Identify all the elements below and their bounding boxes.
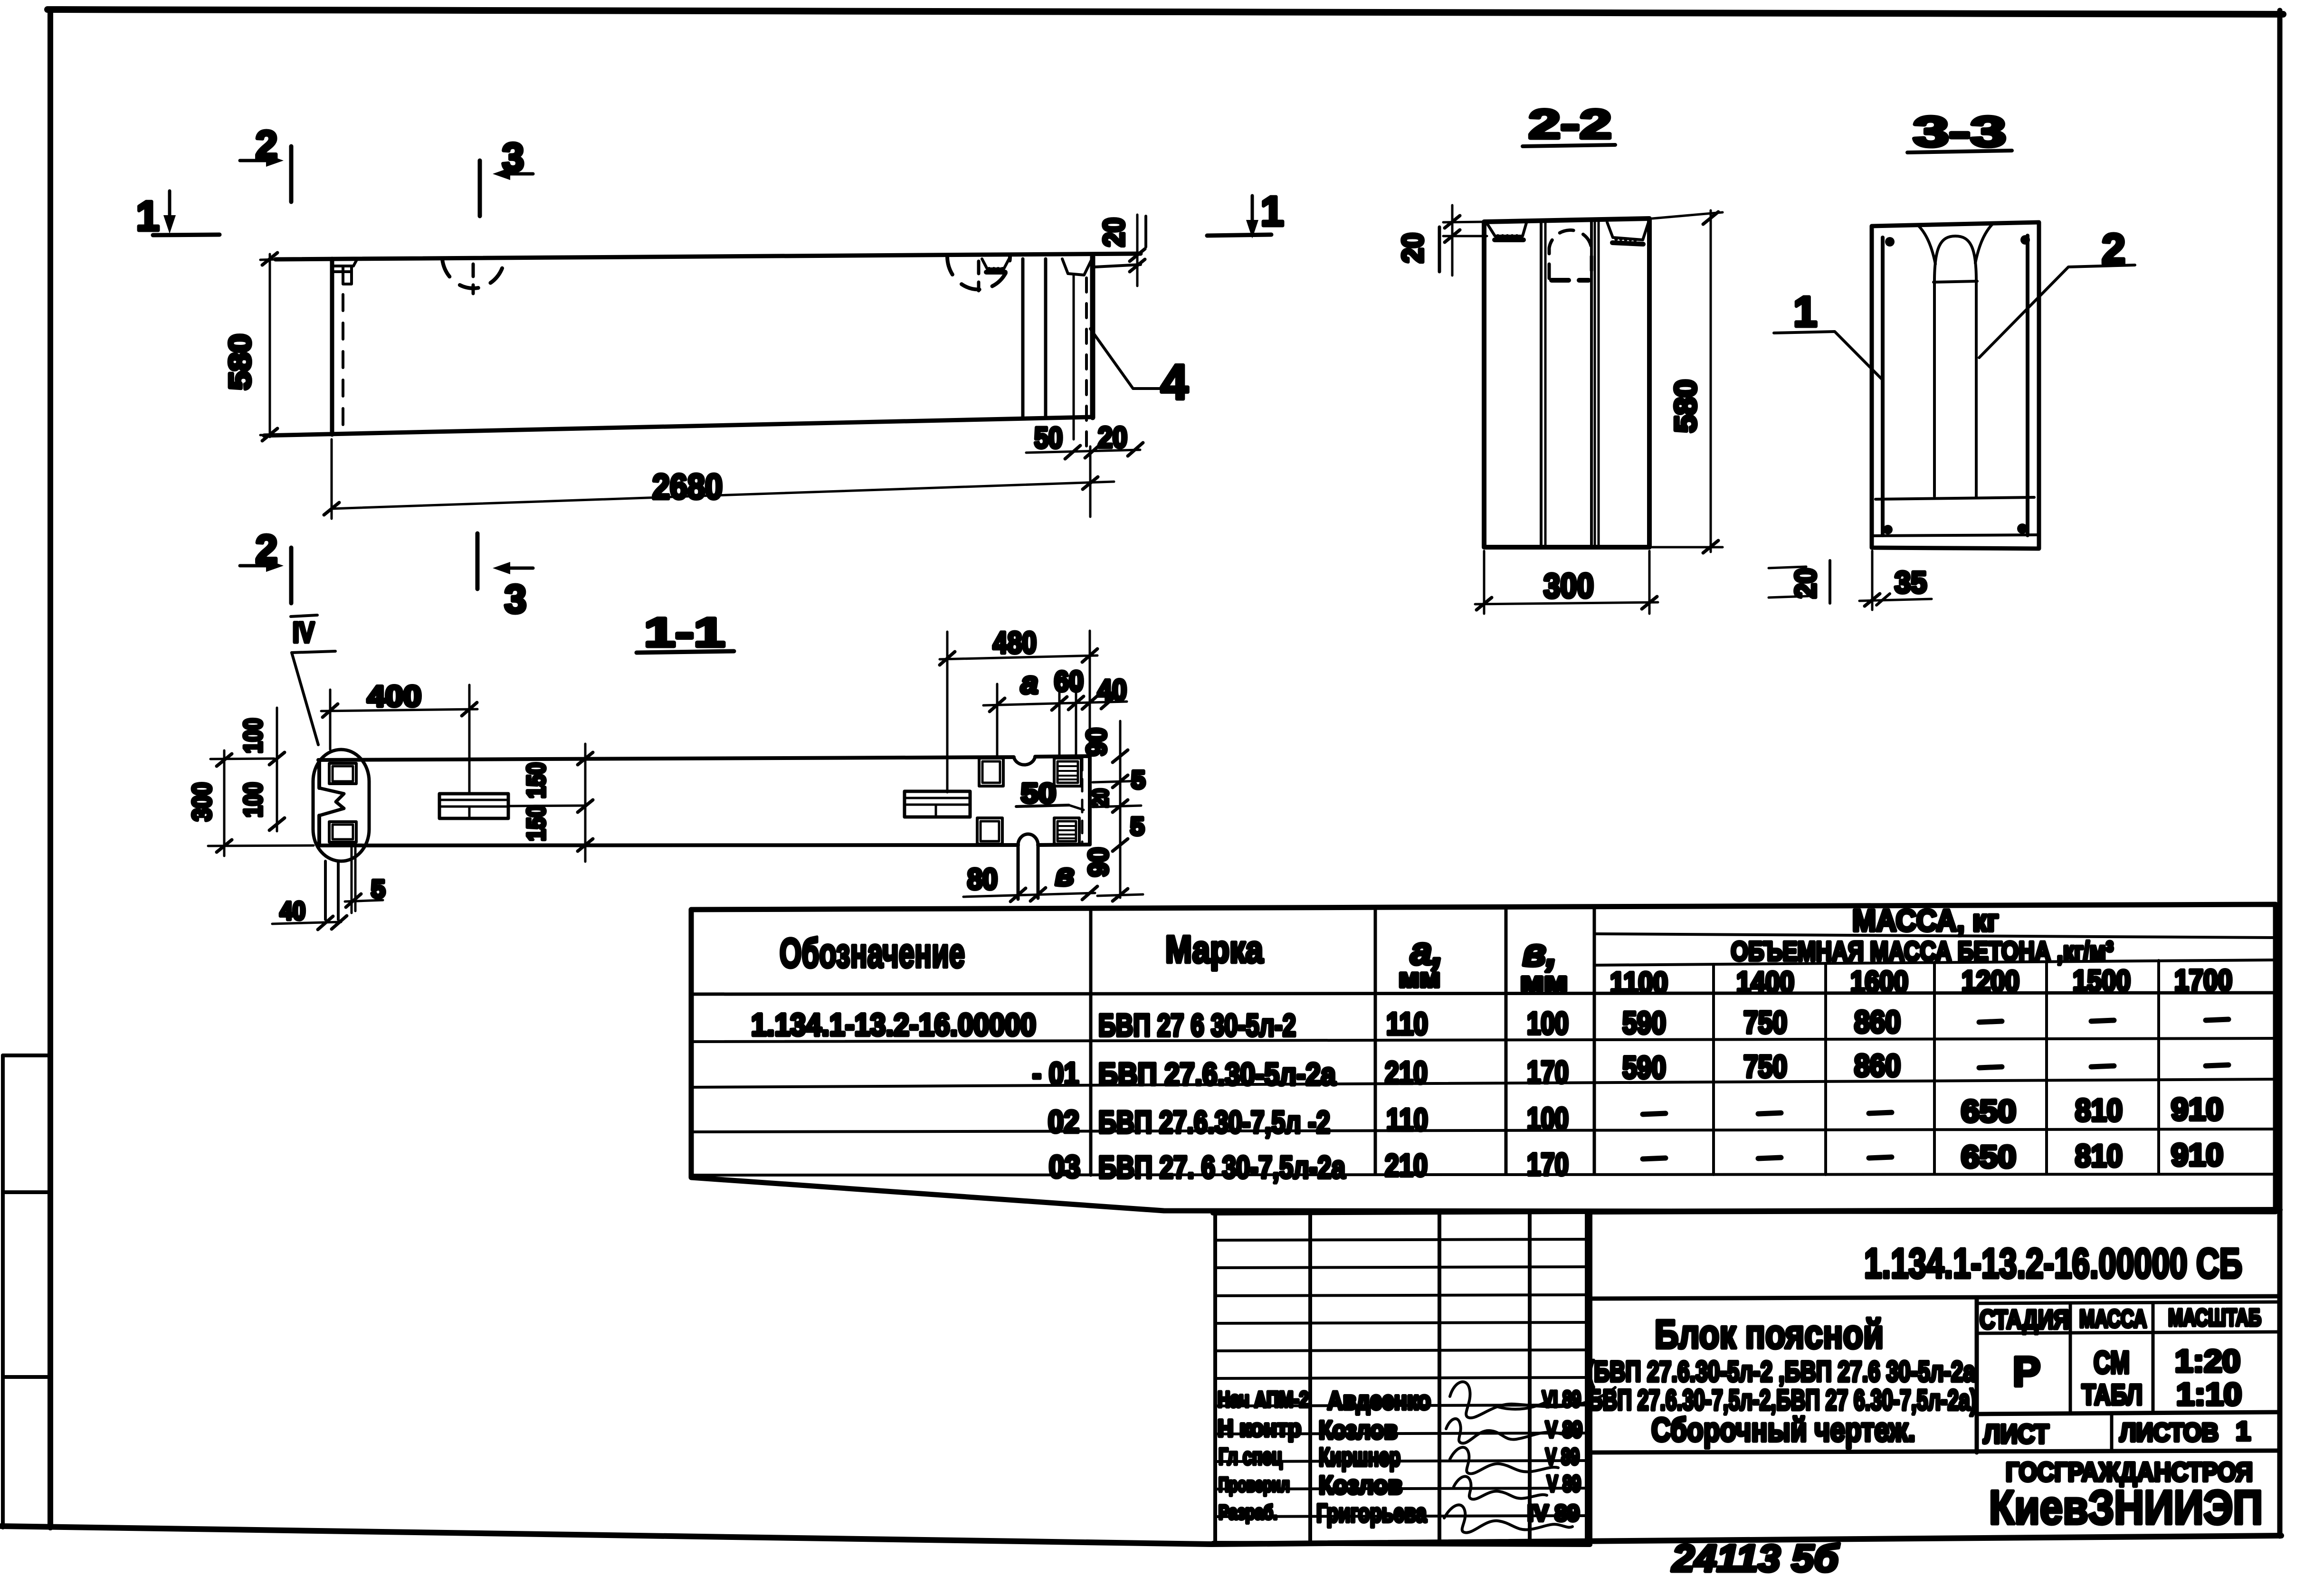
1-1 dim 80/b: tick 3 bbox=[1082, 886, 1097, 900]
signature table vertical 3 bbox=[1438, 1213, 1441, 1544]
svg-text:90: 90 bbox=[1083, 847, 1114, 877]
svg-text:Григорьева: Григорьева bbox=[1316, 1499, 1427, 1528]
stamp stage divider 2 bbox=[2152, 1303, 2155, 1413]
section 3-3 channel arch bbox=[1934, 236, 1976, 281]
dim 2680 extension right bbox=[1089, 446, 1092, 517]
detail label IV leader bbox=[292, 653, 318, 745]
signature table row line 3 bbox=[1215, 1295, 1587, 1296]
section 2-2 dashed channel cavity bbox=[1549, 230, 1591, 278]
section 3-3 funnel shoulder left bbox=[1918, 226, 1935, 264]
spec table row line 3 bbox=[691, 1129, 2276, 1132]
svg-text:100: 100 bbox=[239, 718, 267, 753]
1-1 dim 5: tick bbox=[346, 894, 361, 907]
svg-text:Сборочный чертеж.: Сборочный чертеж. bbox=[1651, 1411, 1915, 1448]
spec table density header underline bbox=[1594, 960, 2276, 965]
svg-text:Козлов: Козлов bbox=[1319, 1416, 1398, 1444]
1-1 bar bottom edge left segment bbox=[318, 845, 1018, 845]
1-1 embedded plate right-middle top line bbox=[905, 797, 970, 799]
section 2-2 bearing pocket right dots bbox=[1614, 237, 1637, 242]
svg-text:КиевЗНИИЭП: КиевЗНИИЭП bbox=[1989, 1481, 2263, 1534]
1-1 plate lower-B hatch bbox=[1058, 826, 1075, 838]
svg-text:150: 150 bbox=[522, 762, 551, 798]
svg-text:1500: 1500 bbox=[2073, 965, 2131, 997]
spec table col line: designation/mark bbox=[1089, 908, 1093, 1175]
svg-text:40: 40 bbox=[1097, 674, 1127, 707]
signature table row line 4 bbox=[1215, 1322, 1587, 1323]
signature table vertical 4 bbox=[1528, 1213, 1532, 1544]
section 2-2 dashed cavity bottom bbox=[1552, 278, 1589, 283]
svg-text:Блок поясной: Блок поясной bbox=[1655, 1312, 1884, 1357]
stamp top edge bbox=[1590, 1210, 2280, 1212]
stamp outer left edge bbox=[1588, 1212, 1592, 1544]
svg-text:1: 1 bbox=[1261, 188, 1284, 235]
1-1 dashed edge strip line bbox=[1081, 758, 1084, 844]
section marker 2 bottom: cut line bbox=[289, 548, 294, 603]
signature squiggle 1 bbox=[1450, 1382, 1615, 1418]
svg-text:860: 860 bbox=[1854, 1004, 1901, 1039]
signature table vertical 5 bbox=[1585, 1213, 1589, 1544]
section 2-2 dim 20: extension bottom bbox=[1443, 235, 1487, 237]
svg-text:210: 210 bbox=[1385, 1148, 1428, 1183]
dim 2680 line bbox=[332, 482, 1114, 509]
signature table row line 11 bbox=[1215, 1516, 1587, 1517]
1-1 bar bottom edge right segment bbox=[1038, 845, 1090, 845]
signature table row line 7 bbox=[1215, 1405, 1587, 1406]
1-1 dim a/60/40: tick 5 bbox=[1101, 695, 1116, 709]
dim 580 extension top bbox=[260, 259, 277, 260]
dim 20 top-right tick 2 bbox=[1130, 259, 1145, 272]
1-1 embedded plate lower-left outer bbox=[329, 822, 356, 842]
signature squiggle 2 bbox=[1446, 1419, 1575, 1443]
svg-text:(БВП 27.6.30-5л-2 ,БВП 27.6 30: (БВП 27.6.30-5л-2 ,БВП 27.6 30-5л-2а bbox=[1587, 1356, 1975, 1387]
svg-text:V 89: V 89 bbox=[1545, 1444, 1580, 1470]
dim 50/20 tick 3 bbox=[1128, 443, 1143, 456]
stamp organization band top line bbox=[1590, 1451, 2280, 1453]
beam left dashed joint line bbox=[342, 266, 344, 433]
1-1 anchor rod 4 bbox=[354, 846, 357, 911]
section 1-1 title underline bbox=[637, 651, 734, 653]
1-1 bar right end edge bbox=[1088, 756, 1092, 845]
svg-text:110: 110 bbox=[1386, 1102, 1428, 1137]
position label 1: leader bbox=[1774, 332, 1883, 380]
svg-text:Разраб.: Разраб. bbox=[1219, 1501, 1277, 1523]
lifting loop arc left (dashed) bbox=[442, 259, 505, 288]
section 2-2 bearing pocket right base plate bbox=[1612, 243, 1643, 244]
svg-text:МАССА: МАССА bbox=[2079, 1305, 2147, 1333]
signature table vertical 2 bbox=[1308, 1213, 1312, 1544]
svg-text:V 89: V 89 bbox=[1547, 1472, 1581, 1497]
svg-text:3-3: 3-3 bbox=[1913, 108, 2006, 156]
1-1 right dims tick y1645 bbox=[1113, 775, 1128, 788]
svg-text:590: 590 bbox=[1622, 1005, 1666, 1040]
svg-text:1: 1 bbox=[136, 192, 160, 239]
svg-text:100: 100 bbox=[239, 782, 267, 817]
svg-text:Нач АПМ-2: Нач АПМ-2 bbox=[1218, 1387, 1309, 1412]
svg-text:ЛИСТ: ЛИСТ bbox=[1983, 1419, 2049, 1449]
1-1 top edge extension left bbox=[210, 759, 274, 759]
svg-text:МАССА, кг: МАССА, кг bbox=[1852, 903, 1999, 938]
svg-text:Обозначение: Обозначение bbox=[780, 930, 965, 976]
svg-text:СМ: СМ bbox=[2094, 1345, 2130, 1380]
svg-text:Авдеенко: Авдеенко bbox=[1327, 1386, 1431, 1415]
row 1: dash 1200 bbox=[1979, 1021, 2002, 1022]
section marker 1 right: cut line bbox=[1207, 235, 1271, 236]
row 4: dash 1400 bbox=[1758, 1158, 1781, 1158]
section 3-3 rebar dot top-left bbox=[1885, 237, 1895, 247]
svg-text:02: 02 bbox=[1048, 1104, 1079, 1139]
signature table row line 2 bbox=[1215, 1267, 1587, 1268]
1-1 dim 80/b: line bbox=[963, 893, 1095, 897]
spec table row line 1 bbox=[691, 1038, 2276, 1042]
stamp stage header underline bbox=[1977, 1332, 2280, 1333]
lifting loop right centre tick (dashed) bbox=[977, 261, 981, 291]
svg-text:СТАДИЯ: СТАДИЯ bbox=[1980, 1304, 2069, 1334]
1-1 bottom edge extension left bbox=[208, 845, 314, 846]
svg-text:300: 300 bbox=[187, 782, 217, 821]
signature table vertical 1 bbox=[1213, 1213, 1217, 1544]
1-1 right dims ext y1884 bbox=[1097, 894, 1143, 896]
svg-text:VI 89: VI 89 bbox=[1542, 1387, 1581, 1412]
svg-text:03: 03 bbox=[1049, 1149, 1080, 1184]
1-1 dim 40: line bbox=[272, 922, 341, 924]
section 2-2 dim 580: extension top bbox=[1652, 212, 1723, 218]
1-1 dim a/60/40: extension 3 bbox=[1075, 686, 1077, 755]
spec table col line: a/b bbox=[1505, 907, 1508, 1173]
1-1 plate upper-B outer (hatched) bbox=[1054, 758, 1081, 786]
section 2-2 inner joint line 3 bbox=[1590, 219, 1593, 546]
svg-text:ЛИСТОВ: ЛИСТОВ bbox=[2120, 1418, 2219, 1447]
joint line B at beam right end bbox=[1044, 259, 1048, 418]
svg-text:5: 5 bbox=[1131, 766, 1145, 794]
svg-text:1: 1 bbox=[2236, 1416, 2250, 1446]
section marker 3 top: arrow bbox=[505, 172, 533, 176]
svg-text:810: 810 bbox=[2075, 1092, 2123, 1128]
section 2-2 dim 580: tick bottom bbox=[1703, 541, 1718, 553]
signature squiggle 4 bbox=[1454, 1476, 1547, 1499]
dim 580 tick bottom bbox=[262, 428, 277, 441]
1-1 dim 480: line bbox=[940, 655, 1097, 659]
svg-text:750: 750 bbox=[1743, 1005, 1787, 1040]
1-1 dim 150/150: tick 1 bbox=[578, 752, 593, 765]
1-1 bar left end keyway notch bbox=[319, 788, 344, 816]
1-1 dim 40: tick 2 bbox=[332, 916, 347, 929]
section marker 3 bottom: arrow bbox=[505, 567, 533, 570]
detail IV boundary capsule bbox=[313, 750, 369, 861]
1-1 embedded plate middle divider bbox=[468, 807, 471, 818]
section 2-2 dim 300: extension right bbox=[1648, 551, 1651, 614]
detail label IV reference line bbox=[292, 651, 335, 653]
row 3: dash 1600 bbox=[1869, 1112, 1892, 1113]
svg-text:1-1: 1-1 bbox=[644, 610, 725, 655]
dim 580 extension bottom bbox=[260, 434, 330, 437]
1-1 right dims ext y1697 bbox=[1093, 806, 1141, 807]
row 2: dash 1700 bbox=[2206, 1065, 2229, 1066]
svg-text:170: 170 bbox=[1527, 1054, 1569, 1090]
svg-text:80: 80 bbox=[967, 863, 998, 896]
1-1 dim 400: tick left bbox=[323, 704, 338, 717]
dim 2680 tick left bbox=[324, 503, 339, 515]
svg-text:БВП 27.6.30-5л-2а: БВП 27.6.30-5л-2а bbox=[1098, 1056, 1336, 1092]
1-1 embedded plate middle outer bbox=[439, 794, 508, 818]
svg-text:1400: 1400 bbox=[1736, 966, 1794, 999]
section 3-3 outline bbox=[1872, 222, 2039, 549]
section 2-2 dim 580: line bbox=[1710, 210, 1712, 552]
1-1 bar top edge notch bbox=[1014, 757, 1035, 765]
section 3-3 dim 35: line bbox=[1859, 599, 1932, 601]
row 4: dash 1600 bbox=[1869, 1157, 1892, 1158]
svg-text:20: 20 bbox=[1088, 788, 1113, 807]
1-1 plate lower-A inner bbox=[981, 821, 999, 841]
1-1 embedded plate right-middle divider bbox=[935, 805, 937, 817]
svg-text:1: 1 bbox=[1793, 288, 1817, 336]
section marker 1 right: arrow bbox=[1251, 196, 1254, 224]
row 2: dash 1200 bbox=[1979, 1067, 2002, 1068]
svg-text:400: 400 bbox=[367, 680, 421, 713]
section 2-2 dim 20: text underline bbox=[1438, 227, 1441, 272]
svg-text:a: a bbox=[1021, 665, 1038, 700]
1-1 right dims tick y1697 bbox=[1113, 800, 1128, 812]
svg-text:1100: 1100 bbox=[1610, 967, 1668, 999]
1-1 lifting loop leg right bbox=[1037, 845, 1040, 898]
1-1 embedded plate upper-left outer bbox=[329, 763, 356, 784]
1-1 dim 5: line bbox=[345, 900, 383, 902]
svg-text:650: 650 bbox=[1961, 1139, 2016, 1174]
1-1 label 50: underline bbox=[1016, 805, 1069, 807]
1-1 lifting loop arc (plan) bbox=[1018, 834, 1038, 845]
section 2-2 inner joint line 1 bbox=[1540, 220, 1543, 546]
spec table mass col line 2 bbox=[1824, 963, 1827, 1175]
svg-text:110: 110 bbox=[1386, 1006, 1428, 1041]
signature table bottom edge bbox=[1213, 1543, 1590, 1545]
section 2-2 bearing pocket right bbox=[1607, 222, 1648, 240]
svg-text:2-2: 2-2 bbox=[1529, 102, 1612, 147]
section 2-2 dim 580: tick top bbox=[1703, 212, 1718, 224]
1-1 dim 400: extension left bbox=[329, 690, 332, 750]
svg-text:мм: мм bbox=[1520, 967, 1568, 997]
svg-text:4: 4 bbox=[1161, 355, 1188, 410]
dim 20 top-right tick 1 bbox=[1130, 249, 1145, 261]
section 3-3 stirrup left leg bbox=[1881, 237, 1885, 535]
section marker 1 left: arrow bbox=[168, 191, 171, 219]
section 3-3 channel right line bbox=[1975, 280, 1978, 496]
signature squiggle 5 bbox=[1444, 1505, 1572, 1532]
svg-text:810: 810 bbox=[2075, 1138, 2123, 1173]
stamp title/info divider bbox=[1975, 1299, 1979, 1453]
section 2-2 inner joint line 4 bbox=[1594, 219, 1596, 546]
signature table row line 6 bbox=[1215, 1377, 1587, 1378]
svg-text:МАСШТАБ: МАСШТАБ bbox=[2168, 1304, 2261, 1331]
signature table row line 9 bbox=[1215, 1461, 1587, 1462]
section 2-2 outline bbox=[1484, 218, 1649, 547]
svg-text:БВП 27.6.30-7,5л -2: БВП 27.6.30-7,5л -2 bbox=[1098, 1104, 1330, 1139]
joint line C at beam right end bbox=[1073, 275, 1075, 439]
1-1 plate upper-B hatch bbox=[1058, 766, 1077, 779]
svg-text:90: 90 bbox=[1081, 728, 1112, 756]
section 2-2 dim 20: line bbox=[1451, 205, 1454, 275]
svg-text:БВП 27. 6 30-7,5л-2а: БВП 27. 6 30-7,5л-2а bbox=[1098, 1149, 1346, 1185]
1-1 embedded plate lower-left inner bbox=[333, 825, 353, 839]
section 3-3 channel base line bbox=[1933, 281, 1977, 282]
svg-text:580: 580 bbox=[223, 334, 257, 390]
1-1 anchor rod 2 bbox=[337, 861, 340, 920]
section 3-3 rebar dot top-right bbox=[2020, 235, 2030, 245]
section marker 3 top: cut line bbox=[478, 161, 482, 216]
spec table header bottom line bbox=[691, 993, 2276, 994]
1-1 right dims ext y1645 bbox=[1093, 781, 1141, 782]
1-1 right dims tick y1592 bbox=[1113, 750, 1128, 762]
svg-text:Р: Р bbox=[2013, 1348, 2041, 1395]
section 3-3 dim 20: tick line bottom bbox=[1769, 596, 1808, 598]
1-1 dim 150/150: line bbox=[584, 744, 587, 862]
beam elevation top edge bbox=[276, 254, 1141, 259]
svg-text:35: 35 bbox=[1895, 565, 1927, 599]
signature table row line 5 bbox=[1215, 1350, 1587, 1351]
svg-text:1:20: 1:20 bbox=[2175, 1343, 2240, 1378]
lifting loop arc right (dashed) bbox=[947, 256, 1010, 290]
svg-text:910: 910 bbox=[2171, 1137, 2223, 1172]
row 4: dash 1100 bbox=[1643, 1158, 1666, 1159]
dim 20 top-right vertical line bbox=[1136, 215, 1139, 286]
section 3-3 dim 20: tick line top bbox=[1769, 567, 1806, 568]
spec table mass col line 5 bbox=[2157, 960, 2160, 1174]
beam left corbel detail bbox=[333, 259, 357, 284]
spec table row line 2 bbox=[691, 1079, 2276, 1087]
left margin column divider 2 bbox=[3, 1190, 48, 1194]
1-1 plate lower-A outer bbox=[977, 818, 1002, 844]
section 2-2 bearing pocket left dots bbox=[1496, 234, 1519, 238]
section 3-3 inner bottom line bbox=[1873, 535, 2038, 536]
svg-text:40: 40 bbox=[280, 897, 305, 925]
svg-text:100: 100 bbox=[1527, 1101, 1569, 1136]
svg-text:БВП 27 6 30-5л-2: БВП 27 6 30-5л-2 bbox=[1098, 1007, 1296, 1043]
dim 20 top-right underline bbox=[1144, 216, 1147, 247]
svg-text:Гл спец: Гл спец bbox=[1219, 1444, 1282, 1470]
1-1 dim a/60/40: tick 3 bbox=[1068, 696, 1084, 710]
svg-text:910: 910 bbox=[2171, 1092, 2223, 1127]
stamp stage header box top bbox=[1977, 1302, 2280, 1303]
section 3-3 dim 35: tick 1 bbox=[1865, 594, 1880, 606]
1-1 dim 400: tick right bbox=[462, 703, 477, 716]
signature table row line 1 bbox=[1215, 1239, 1587, 1240]
beam elevation bottom edge bbox=[264, 417, 1093, 436]
left margin column divider 1 bbox=[3, 1054, 48, 1057]
svg-text:2680: 2680 bbox=[652, 467, 723, 506]
row 2: dash 1500 bbox=[2091, 1066, 2114, 1067]
bearing pocket 1 on beam top edge bbox=[982, 259, 1009, 269]
row 1: dash 1700 bbox=[2206, 1019, 2229, 1020]
1-1 plate upper-B inner bbox=[1057, 761, 1078, 783]
sheet frame left border bbox=[48, 9, 53, 1528]
1-1 bar left end edge lower bbox=[317, 816, 321, 845]
svg-text:1200: 1200 bbox=[1962, 965, 2019, 998]
sheet frame top border bbox=[48, 9, 2283, 14]
section 2-2 dim 300: extension left bbox=[1483, 551, 1486, 614]
svg-text:ОБЪЕМНАЯ МАССА БЕТОНА ,кг/м³: ОБЪЕМНАЯ МАССА БЕТОНА ,кг/м³ bbox=[1731, 936, 2114, 967]
svg-text:1700: 1700 bbox=[2174, 964, 2232, 997]
leader line for mark 4 bbox=[1090, 329, 1168, 389]
svg-text:1:10: 1:10 bbox=[2176, 1377, 2242, 1412]
section marker 2 top: arrow bbox=[240, 159, 272, 162]
1-1 dim 40: tick 1 bbox=[318, 916, 333, 930]
section 2-2 dim 300: tick right bbox=[1642, 597, 1657, 609]
dim 50/20 tick 1 bbox=[1065, 446, 1080, 459]
1-1 right dims tick y1884 bbox=[1113, 889, 1128, 901]
1-1 embedded plate upper-left inner bbox=[333, 766, 353, 781]
row 1: dash 1500 bbox=[2091, 1020, 2114, 1021]
beam elevation right ledge line (20 step) bbox=[1095, 265, 1141, 267]
detail label IV overbar bbox=[291, 615, 317, 617]
svg-text:860: 860 bbox=[1854, 1048, 1901, 1083]
svg-text:5: 5 bbox=[371, 875, 385, 903]
svg-text:300: 300 bbox=[1543, 567, 1594, 605]
section 2-2 dim 20: tick 2 bbox=[1445, 230, 1460, 242]
1-1 plate lower-B inner bbox=[1057, 821, 1076, 841]
svg-text:V 89: V 89 bbox=[1545, 1417, 1582, 1443]
1-1 dim 300: tick top bbox=[217, 754, 232, 766]
section 2-2 inner joint line 5 bbox=[1598, 219, 1600, 546]
1-1 anchor rod 3 bbox=[351, 846, 353, 913]
spec table mass col line 3 bbox=[1933, 962, 1936, 1174]
section 3-3 funnel shoulder right bbox=[1975, 224, 1992, 263]
1-1 bar centre line bbox=[508, 806, 585, 806]
1-1 bar top edge right segment bbox=[1035, 756, 1090, 757]
stamp sheet band top line bbox=[1977, 1412, 2280, 1414]
section 2-2 dim 20: extension top bbox=[1443, 222, 1484, 222]
signature table row line 8 bbox=[1215, 1433, 1587, 1434]
svg-text:1.134.1-13.2-16.00000: 1.134.1-13.2-16.00000 bbox=[751, 1007, 1036, 1042]
svg-text:20: 20 bbox=[1790, 568, 1822, 598]
lifting loop left centre tick (dashed) bbox=[472, 264, 475, 294]
svg-text:5: 5 bbox=[1130, 812, 1144, 841]
section 2-2 dim 20: tick 1 bbox=[1445, 216, 1460, 228]
1-1 label 50: leader tail bbox=[1069, 805, 1084, 810]
section marker 2 top: cut line bbox=[289, 146, 294, 202]
dim 50/20 line bbox=[1026, 450, 1140, 453]
bearing pocket 1 dots bbox=[987, 267, 1004, 271]
spec table col line: mark/a bbox=[1374, 907, 1377, 1173]
section 3-3 dim 35: tick 2 bbox=[1876, 594, 1890, 605]
svg-text:Киршнер: Киршнер bbox=[1319, 1443, 1400, 1472]
signature table top edge bbox=[1213, 1212, 1590, 1213]
section marker 2 bottom: arrow bbox=[240, 564, 272, 568]
bearing pocket 2 on beam top edge bbox=[1062, 259, 1092, 275]
svg-text:IV: IV bbox=[293, 617, 314, 648]
1-1 embedded plate middle mid line bbox=[439, 806, 508, 808]
sheet frame bottom border bbox=[1, 1526, 2281, 1544]
1-1 right dims tick y1779 bbox=[1113, 839, 1128, 851]
dim 2680 extension left bbox=[331, 439, 333, 519]
1-1 dim 300: tick bottom bbox=[217, 840, 232, 852]
1-1 embedded plate right-middle mid line bbox=[905, 804, 970, 806]
section marker 3 bottom: cut line bbox=[476, 533, 480, 589]
svg-text:- 01: - 01 bbox=[1032, 1056, 1079, 1091]
1-1 plate lower-B outer (hatched) bbox=[1054, 818, 1079, 844]
stamp stage divider 1 bbox=[2069, 1303, 2072, 1413]
svg-text:750: 750 bbox=[1743, 1049, 1787, 1084]
svg-text:60: 60 bbox=[1054, 665, 1084, 697]
joint line A at beam right end bbox=[1021, 259, 1025, 418]
section 2-2 bearing pocket left bbox=[1486, 221, 1527, 236]
1-1 plate upper-A inner bbox=[982, 761, 1000, 783]
sheet frame right border bbox=[2277, 10, 2283, 1536]
position label 2: leader bbox=[1979, 265, 2135, 358]
svg-text:50: 50 bbox=[1034, 422, 1063, 455]
beam elevation right edge bbox=[1090, 257, 1095, 418]
1-1 embedded plate middle top line bbox=[439, 799, 508, 801]
section 2-2 dim 300: line bbox=[1475, 602, 1658, 604]
1-1 anchor rod 1 bbox=[324, 861, 327, 920]
section marker 1 left: cut line bbox=[153, 235, 219, 235]
